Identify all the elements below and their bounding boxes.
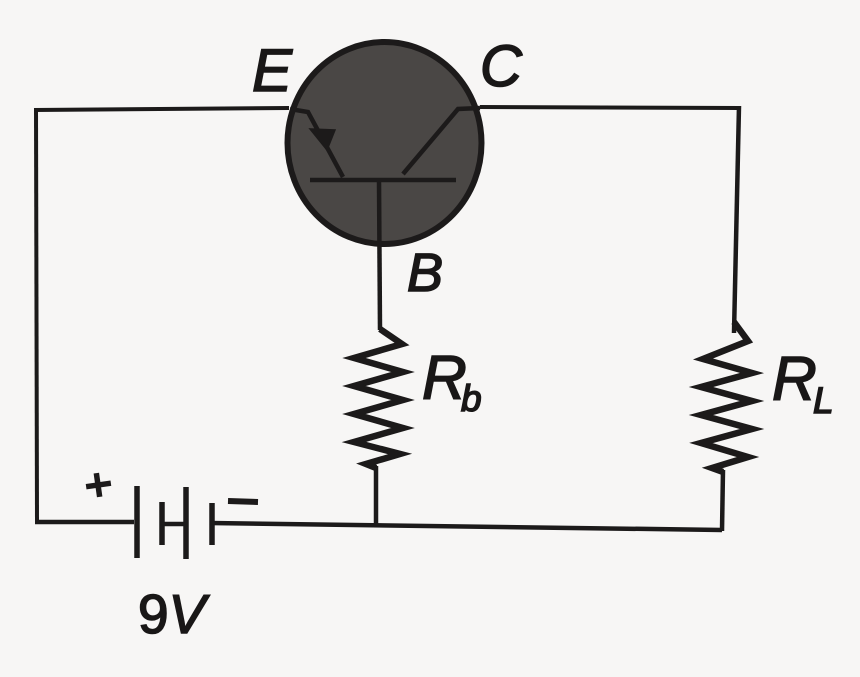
battery BT1 inter-cell link [162,522,186,527]
transistor Q1 base bar [310,178,456,183]
wire: top-right (C to right corner) [480,107,739,108]
wire: right vertical [734,106,739,333]
transistor Q1 emitter arrow (PNP, pointing to base) [310,129,335,150]
transistor Q1 emitter line [290,109,343,177]
wire: top-left (E to left corner) [34,108,289,110]
battery BT1 plate long + [134,486,140,558]
transistor Q1 body [288,42,482,244]
svg-text:R: R [772,345,817,414]
battery polarity + [84,471,112,498]
wire: left vertical [36,108,37,522]
wire: Rb bottom [374,466,379,527]
battery polarity - [228,501,258,502]
battery BT1 plate short 2 [209,503,215,545]
svg-text:B: B [407,243,443,303]
transistor Q1 collector line [403,108,480,174]
svg-text:C: C [480,34,523,99]
wire: base lead down to Rb [379,181,380,330]
resistor Rb zigzag [354,329,403,468]
wire: bottom-left to battery [35,520,134,525]
wire: bottom (battery to RL bottom corner) [210,523,722,530]
battery BT1 plate short [159,502,165,545]
resistor RL zigzag [701,322,752,472]
svg-text:E: E [252,37,293,104]
wire: RL bottom [722,470,723,531]
svg-text:9V: 9V [138,583,210,645]
svg-text:b: b [461,378,482,419]
svg-text:L: L [813,380,834,421]
battery BT1 plate long 2 [183,487,189,559]
